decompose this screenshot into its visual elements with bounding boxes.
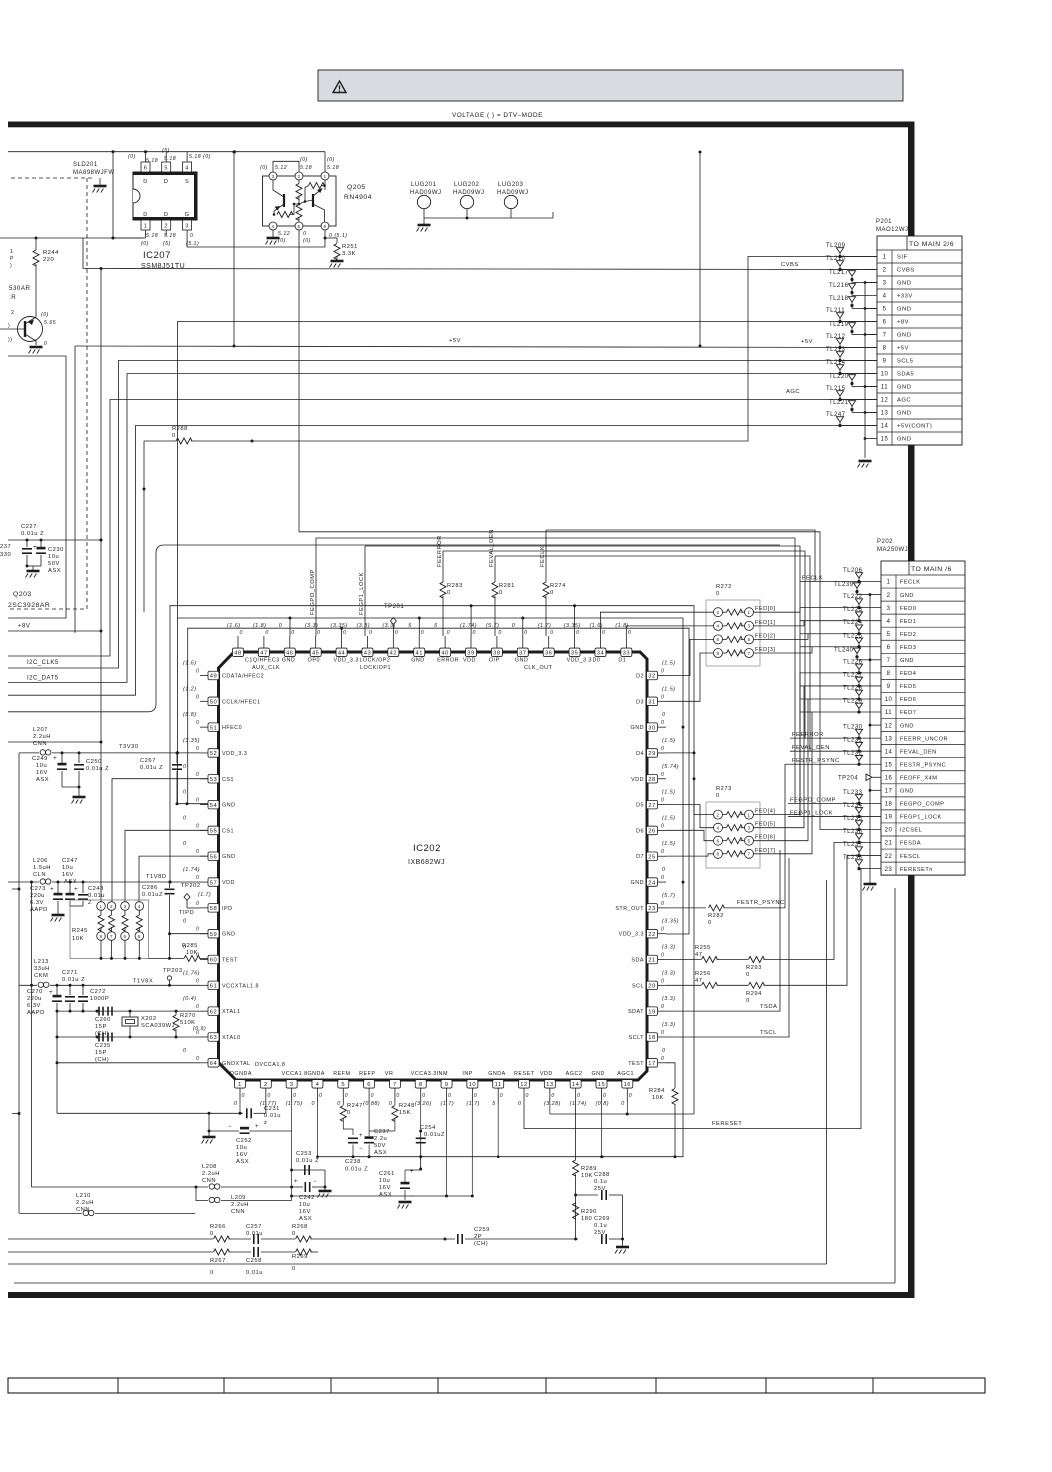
svg-text:R273: R273 bbox=[716, 786, 732, 792]
svg-text:R244: R244 bbox=[43, 250, 59, 256]
IC202 pin 37 bbox=[522, 636, 524, 648]
svg-text:D3: D3 bbox=[636, 699, 644, 705]
svg-text:TL216: TL216 bbox=[829, 283, 849, 289]
svg-text:(1.5): (1.5) bbox=[662, 790, 676, 796]
test point TL217 bbox=[850, 278, 853, 281]
svg-text:D2: D2 bbox=[636, 674, 644, 680]
svg-text:9: 9 bbox=[883, 359, 887, 365]
svg-text:HFEC0: HFEC0 bbox=[222, 725, 242, 731]
svg-text:FERESET: FERESET bbox=[712, 1121, 742, 1127]
wire L208 feed vertical bbox=[31, 882, 33, 1187]
svg-text:(3.3): (3.3) bbox=[662, 970, 676, 976]
svg-text:TL225: TL225 bbox=[843, 633, 863, 639]
svg-text:FESTR_PSYNC: FESTR_PSYNC bbox=[737, 900, 785, 906]
svg-text:34: 34 bbox=[597, 651, 605, 657]
svg-text:10u: 10u bbox=[236, 1145, 247, 1151]
wire top +5V rail y152 bbox=[8, 151, 325, 153]
svg-text:AUX_CLK: AUX_CLK bbox=[252, 665, 280, 671]
wire R245 pin1 feed bbox=[8, 742, 101, 902]
wire CVBS net bbox=[83, 269, 877, 270]
svg-text:−: − bbox=[410, 1194, 414, 1200]
IC202 pin 33 bbox=[625, 636, 627, 648]
svg-text:VDD_3.3: VDD_3.3 bbox=[334, 658, 359, 664]
svg-text:5.65: 5.65 bbox=[44, 320, 56, 326]
svg-text:31: 31 bbox=[648, 700, 655, 706]
svg-text:GND: GND bbox=[897, 411, 911, 417]
svg-text:0: 0 bbox=[44, 341, 47, 347]
svg-text:0: 0 bbox=[422, 1093, 425, 1099]
svg-text:0: 0 bbox=[183, 919, 187, 925]
svg-text:+5V: +5V bbox=[897, 346, 909, 352]
svg-text:0: 0 bbox=[473, 630, 476, 636]
test point TL210 bbox=[838, 268, 841, 271]
svg-text:0: 0 bbox=[196, 669, 199, 675]
svg-text:+: + bbox=[294, 1179, 298, 1185]
svg-text:REFP: REFP bbox=[359, 1071, 375, 1077]
svg-text:2: 2 bbox=[264, 1082, 268, 1088]
IC202 pin 19 bbox=[658, 1010, 666, 1012]
svg-text:12: 12 bbox=[881, 398, 889, 404]
resistor R290 180 bbox=[573, 1203, 579, 1219]
svg-text:X202: X202 bbox=[141, 1016, 157, 1022]
svg-text:0.01u: 0.01u bbox=[264, 1113, 281, 1119]
svg-text:10: 10 bbox=[881, 372, 889, 378]
svg-text:0: 0 bbox=[210, 1270, 214, 1276]
svg-text:5.18: 5.18 bbox=[146, 233, 158, 239]
svg-text:0: 0 bbox=[345, 1093, 348, 1099]
wire DGNDA rail y1113 bbox=[57, 1112, 243, 1114]
svg-text:2.2uH: 2.2uH bbox=[76, 1200, 94, 1206]
svg-text:7: 7 bbox=[110, 934, 113, 939]
svg-text:6.3V: 6.3V bbox=[27, 1003, 41, 1009]
svg-text:R285: R285 bbox=[182, 943, 198, 949]
svg-text:18: 18 bbox=[885, 802, 893, 808]
svg-text:GND: GND bbox=[282, 658, 295, 664]
svg-text:0: 0 bbox=[240, 630, 243, 636]
svg-text:25V: 25V bbox=[594, 1186, 606, 1192]
svg-text:FED[2]: FED[2] bbox=[755, 633, 775, 639]
svg-text:TEST: TEST bbox=[628, 1061, 644, 1067]
svg-text:16V: 16V bbox=[36, 770, 48, 776]
IC202 pin 59 bbox=[200, 933, 208, 935]
IC202 pin 48 bbox=[237, 636, 239, 648]
svg-text:0.1u: 0.1u bbox=[594, 1179, 607, 1185]
svg-text:−: − bbox=[228, 1124, 232, 1130]
wire pin9 INM drop bbox=[446, 1102, 448, 1196]
svg-text:14: 14 bbox=[572, 1082, 580, 1088]
resistor R247 0 bbox=[342, 1102, 344, 1105]
resistor R251 3.3K bbox=[325, 238, 337, 243]
svg-text:LOCK/OP1: LOCK/OP1 bbox=[360, 665, 391, 671]
svg-text:0: 0 bbox=[196, 772, 199, 778]
svg-text:7: 7 bbox=[883, 333, 887, 339]
IC202 pin 43 bbox=[366, 636, 368, 648]
svg-text:5.18: 5.18 bbox=[300, 165, 312, 171]
resistor network R245 10K bbox=[70, 900, 149, 958]
svg-text:L213: L213 bbox=[34, 959, 49, 965]
svg-text:TL215: TL215 bbox=[826, 386, 846, 392]
IC202 pin 14 bbox=[575, 1088, 577, 1102]
svg-text:(3.35): (3.35) bbox=[183, 738, 200, 744]
svg-text:0: 0 bbox=[210, 1231, 214, 1237]
svg-text:FED5: FED5 bbox=[900, 684, 916, 690]
svg-text:+5V(CONT): +5V(CONT) bbox=[897, 424, 932, 430]
svg-text:R294: R294 bbox=[746, 991, 762, 997]
svg-text:4: 4 bbox=[887, 619, 891, 625]
svg-text:0: 0 bbox=[196, 875, 199, 881]
svg-text:FESDA: FESDA bbox=[900, 841, 921, 847]
svg-text:+5V: +5V bbox=[449, 338, 461, 344]
svg-text:TL222: TL222 bbox=[843, 594, 863, 600]
IC202 pin 55 bbox=[200, 829, 208, 831]
svg-text:4: 4 bbox=[271, 224, 274, 229]
svg-text:38: 38 bbox=[493, 651, 500, 657]
wire GND pin56 to R245 bbox=[139, 856, 208, 901]
svg-text:0: 0 bbox=[371, 1093, 374, 1099]
svg-text:GND: GND bbox=[897, 281, 911, 287]
svg-text:AGC2: AGC2 bbox=[566, 1071, 583, 1077]
svg-text:FEERR_UNCOR: FEERR_UNCOR bbox=[900, 736, 948, 742]
test point TL218 bbox=[850, 304, 853, 307]
svg-text:AGC: AGC bbox=[786, 389, 800, 395]
svg-text:0: 0 bbox=[661, 875, 664, 881]
svg-text:SIF: SIF bbox=[897, 255, 908, 261]
svg-text:LUG201: LUG201 bbox=[411, 182, 437, 188]
wire to P202 pin 15 bbox=[790, 763, 859, 765]
svg-text:INM: INM bbox=[437, 1071, 448, 1077]
IC202 pin 46 bbox=[289, 636, 291, 648]
ground C261 bbox=[399, 1201, 412, 1204]
svg-text:6: 6 bbox=[123, 934, 126, 939]
IC202 pin 61 bbox=[200, 984, 208, 986]
wire x101 upper bbox=[100, 269, 102, 743]
svg-text:C261: C261 bbox=[379, 1171, 395, 1177]
svg-text:SLD201: SLD201 bbox=[73, 162, 98, 168]
wire D1 to R272 bbox=[626, 626, 713, 636]
svg-text:3: 3 bbox=[883, 281, 887, 287]
Q205 pin 4 bbox=[269, 222, 277, 230]
svg-text:CLN: CLN bbox=[33, 872, 46, 878]
svg-text:TL227: TL227 bbox=[843, 672, 863, 678]
svg-text:5.18: 5.18 bbox=[327, 165, 339, 171]
svg-text:220u: 220u bbox=[27, 996, 42, 1002]
svg-text:GND: GND bbox=[897, 385, 911, 391]
svg-text:TO MAIN 2/6: TO MAIN 2/6 bbox=[909, 241, 954, 248]
svg-text:9: 9 bbox=[445, 1082, 449, 1088]
wire vertical x700 bbox=[699, 152, 701, 346]
svg-text:0: 0 bbox=[628, 630, 631, 636]
svg-text:GND: GND bbox=[411, 658, 424, 664]
svg-text:42: 42 bbox=[390, 651, 397, 657]
ground Q205 pin4 bbox=[272, 230, 274, 237]
svg-text:35: 35 bbox=[571, 651, 578, 657]
svg-text:(5.1): (5.1) bbox=[186, 241, 199, 247]
svg-text:10K: 10K bbox=[72, 936, 84, 942]
svg-text:6: 6 bbox=[716, 637, 719, 642]
wire cluster2 bottoms bbox=[70, 905, 83, 907]
svg-text:0: 0 bbox=[661, 669, 664, 675]
svg-text:5: 5 bbox=[297, 224, 300, 229]
svg-text:0: 0 bbox=[196, 798, 199, 804]
svg-text:0: 0 bbox=[661, 953, 664, 959]
svg-text:VDD_3.3: VDD_3.3 bbox=[567, 658, 592, 664]
wire pin10 INP drop bbox=[471, 1102, 473, 1196]
svg-text:ASX: ASX bbox=[379, 1192, 392, 1198]
svg-text:FERESETn: FERESETn bbox=[900, 867, 933, 873]
svg-text:(1.76): (1.76) bbox=[183, 970, 200, 976]
wire y1196 rail bbox=[292, 1195, 473, 1197]
svg-text:VR: VR bbox=[385, 1071, 394, 1077]
svg-text:(CH): (CH) bbox=[474, 1241, 488, 1247]
wire x113 drop bbox=[112, 152, 114, 238]
svg-text:1: 1 bbox=[144, 224, 148, 230]
capacitor C269 0.1u 25V bbox=[601, 1234, 603, 1244]
svg-text:0: 0 bbox=[524, 630, 527, 636]
svg-text:0: 0 bbox=[183, 764, 187, 770]
svg-text:17: 17 bbox=[648, 1061, 655, 1067]
wire SDAT TSDA bbox=[666, 850, 780, 1011]
wire bottom pin stub drops bbox=[239, 1102, 241, 1113]
svg-text:O/P: O/P bbox=[489, 658, 500, 664]
svg-text:C254: C254 bbox=[420, 1125, 436, 1131]
svg-text:0: 0 bbox=[183, 1048, 187, 1054]
svg-text:10u: 10u bbox=[379, 1178, 390, 1184]
svg-text:(0): (0) bbox=[300, 157, 308, 163]
svg-text:7: 7 bbox=[747, 852, 750, 857]
svg-text:AGC1: AGC1 bbox=[617, 1071, 634, 1077]
svg-text:GND: GND bbox=[900, 658, 914, 664]
svg-text:0: 0 bbox=[196, 901, 199, 907]
svg-text:19: 19 bbox=[885, 815, 893, 821]
svg-text:14: 14 bbox=[881, 424, 889, 430]
svg-text:C286: C286 bbox=[142, 885, 158, 891]
svg-text:REFM: REFM bbox=[333, 1071, 350, 1077]
test point TL230 bbox=[857, 737, 860, 740]
svg-text:I2C_CLK5: I2C_CLK5 bbox=[27, 660, 59, 666]
svg-text:57: 57 bbox=[210, 880, 217, 886]
svg-text:D: D bbox=[143, 212, 148, 218]
svg-text:TP201: TP201 bbox=[384, 604, 404, 610]
Q205 pin 1 bbox=[321, 172, 329, 180]
svg-text:ASX: ASX bbox=[64, 879, 77, 885]
svg-text:30: 30 bbox=[648, 725, 655, 731]
svg-text:(3.35): (3.35) bbox=[662, 919, 679, 925]
svg-text:0: 0 bbox=[474, 1093, 477, 1099]
svg-text:CKM: CKM bbox=[34, 973, 48, 979]
bottom title block strip bbox=[8, 1378, 985, 1393]
IC202 pin 63 bbox=[200, 1036, 208, 1038]
svg-text:C253: C253 bbox=[296, 1151, 312, 1157]
wire pin44 stub to VDD33 rail bbox=[341, 628, 343, 636]
svg-text:0: 0 bbox=[196, 720, 199, 726]
svg-text:0: 0 bbox=[498, 630, 501, 636]
svg-text:P201: P201 bbox=[876, 219, 892, 225]
svg-text:0: 0 bbox=[311, 1101, 315, 1107]
svg-text:5: 5 bbox=[747, 839, 750, 844]
svg-text:SCA039WJ: SCA039WJ bbox=[141, 1023, 175, 1029]
IC202 pin 47 bbox=[263, 636, 265, 648]
svg-text:FED4: FED4 bbox=[900, 671, 916, 677]
svg-text:4: 4 bbox=[716, 624, 719, 629]
IC202 pin 56 bbox=[200, 855, 208, 857]
test point TL216 bbox=[850, 291, 853, 294]
svg-text:TL230: TL230 bbox=[843, 725, 863, 731]
wire pin3 VCCA drop bbox=[291, 1102, 293, 1201]
svg-text:TL219: TL219 bbox=[829, 322, 849, 328]
svg-text:P: P bbox=[10, 256, 14, 262]
svg-text:7: 7 bbox=[747, 651, 750, 656]
resistor network R273 0 bbox=[706, 802, 760, 868]
svg-text:TL233: TL233 bbox=[843, 790, 863, 796]
svg-text:3: 3 bbox=[290, 1082, 294, 1088]
svg-text:63: 63 bbox=[210, 1035, 217, 1041]
svg-text:0.01u Z: 0.01u Z bbox=[21, 531, 44, 537]
svg-text:0: 0 bbox=[500, 1093, 503, 1099]
svg-text:5: 5 bbox=[883, 307, 887, 313]
svg-text:TL232: TL232 bbox=[843, 751, 863, 757]
svg-text:IPD: IPD bbox=[222, 906, 233, 912]
capacitor C237 2.2u 50V ASX bbox=[368, 1102, 370, 1136]
ground R251 bbox=[331, 260, 344, 263]
wire D2 to R272 bbox=[666, 639, 714, 675]
wire SIF net with R288 bbox=[144, 440, 176, 442]
resistor R248 15K bbox=[394, 1102, 396, 1105]
svg-text:(1.7): (1.7) bbox=[198, 892, 211, 898]
svg-text:16V: 16V bbox=[62, 872, 74, 878]
svg-text:0.01u: 0.01u bbox=[246, 1231, 263, 1237]
capacitor C253 0.01u Z bbox=[292, 1169, 325, 1171]
svg-text:0: 0 bbox=[661, 772, 664, 778]
svg-text:2: 2 bbox=[716, 610, 719, 615]
svg-text::R: :R bbox=[9, 294, 16, 301]
svg-text:IC207: IC207 bbox=[143, 250, 171, 261]
svg-text:TL213: TL213 bbox=[826, 347, 846, 353]
svg-text:17: 17 bbox=[885, 789, 893, 795]
wire top rail feed bbox=[233, 152, 235, 346]
svg-text:(1.74): (1.74) bbox=[183, 867, 200, 873]
svg-text:7: 7 bbox=[887, 658, 891, 664]
ground C227 bbox=[32, 566, 34, 570]
svg-text:GND: GND bbox=[631, 880, 644, 886]
capacitor C252 10u 16V ASX bbox=[240, 1127, 249, 1130]
svg-text:R267: R267 bbox=[210, 1258, 226, 1264]
svg-text:GND: GND bbox=[222, 854, 235, 860]
wire CVBS corner bbox=[82, 238, 84, 269]
wire C261 feed bbox=[405, 1131, 421, 1170]
svg-text:0: 0 bbox=[661, 978, 664, 984]
svg-text:ASX: ASX bbox=[48, 568, 61, 574]
svg-text:T3V30: T3V30 bbox=[119, 744, 139, 750]
svg-text:FESCL: FESCL bbox=[900, 854, 921, 860]
IC202 pin 6 bbox=[368, 1088, 370, 1102]
IC202 pin 54 bbox=[200, 804, 208, 806]
test point TL214 bbox=[838, 372, 841, 375]
svg-text:0: 0 bbox=[661, 1004, 664, 1010]
svg-text:6: 6 bbox=[883, 320, 887, 326]
svg-text:(3.26): (3.26) bbox=[415, 1101, 432, 1107]
svg-text:13: 13 bbox=[885, 736, 893, 742]
svg-text:16: 16 bbox=[885, 775, 893, 781]
Q205 pin 5 bbox=[295, 222, 303, 230]
svg-text:2P: 2P bbox=[474, 1234, 482, 1240]
IC202 pin 60 bbox=[200, 959, 208, 961]
wire +5V rail bbox=[75, 346, 877, 348]
svg-text:R284: R284 bbox=[649, 1088, 665, 1094]
IC202 pin 23 bbox=[658, 907, 666, 909]
svg-text:0.01u Z: 0.01u Z bbox=[86, 766, 109, 772]
svg-text:SDA5: SDA5 bbox=[897, 372, 914, 378]
svg-text:1: 1 bbox=[323, 174, 326, 179]
test point TL220 bbox=[850, 382, 853, 385]
IC202 pin 51 bbox=[200, 726, 208, 728]
svg-text:C267: C267 bbox=[140, 758, 156, 764]
capacitor C254 0.01uZ bbox=[420, 1102, 422, 1137]
svg-text:49: 49 bbox=[210, 674, 217, 680]
svg-text:61: 61 bbox=[210, 984, 217, 990]
wire SCL5 to I2C_CLK5 bbox=[8, 361, 877, 669]
svg-text:CVBS: CVBS bbox=[897, 268, 915, 274]
svg-text:0: 0 bbox=[746, 998, 750, 1004]
svg-text:TSDA: TSDA bbox=[760, 1004, 777, 1010]
IC202 pin 18 bbox=[658, 1036, 666, 1038]
svg-text:(CH): (CH) bbox=[95, 1057, 109, 1063]
svg-text:(0): (0) bbox=[128, 154, 136, 160]
svg-text:0.01u: 0.01u bbox=[88, 893, 105, 899]
svg-text:FEGPO_COMP: FEGPO_COMP bbox=[900, 802, 944, 808]
svg-text:): ) bbox=[8, 323, 10, 329]
svg-text:GND: GND bbox=[591, 1071, 604, 1077]
svg-text:180: 180 bbox=[581, 1216, 592, 1222]
svg-text:16: 16 bbox=[624, 1082, 631, 1088]
svg-text:2: 2 bbox=[716, 812, 719, 817]
thick page border right bbox=[908, 122, 915, 1298]
wire y1252 rail bbox=[8, 1251, 213, 1253]
IC202 pin 21 bbox=[658, 959, 666, 961]
IC202 pin 8 bbox=[420, 1088, 422, 1102]
svg-text:C272: C272 bbox=[90, 989, 106, 995]
svg-text:25: 25 bbox=[648, 854, 655, 860]
svg-text:P202: P202 bbox=[877, 539, 893, 545]
wire C249 C250 bottoms bbox=[62, 786, 79, 788]
wire D3 to R272 bbox=[666, 653, 714, 701]
svg-text:0: 0 bbox=[265, 630, 268, 636]
svg-text:GND: GND bbox=[222, 803, 235, 809]
svg-text:FED[6]: FED[6] bbox=[755, 835, 775, 841]
wire IC207 pin3 to Q205 pin6 bbox=[187, 230, 325, 247]
svg-text:18: 18 bbox=[648, 1035, 655, 1041]
svg-text:GND: GND bbox=[897, 437, 911, 443]
svg-text:TL238: TL238 bbox=[843, 855, 863, 861]
svg-text:R282: R282 bbox=[708, 913, 724, 919]
svg-text:0: 0 bbox=[629, 1093, 632, 1099]
svg-text:FED1: FED1 bbox=[900, 619, 916, 625]
test point TL227 bbox=[857, 684, 860, 687]
svg-text:0: 0 bbox=[603, 1093, 606, 1099]
ground P201 bus bbox=[859, 460, 872, 463]
svg-text:39: 39 bbox=[467, 651, 474, 657]
svg-text:CCLK/HFEC1: CCLK/HFEC1 bbox=[222, 699, 261, 705]
ground SLD201 bbox=[94, 185, 107, 188]
resistor R284 10K bbox=[672, 1089, 678, 1105]
svg-text:(3.3): (3.3) bbox=[662, 996, 676, 1002]
svg-text:47: 47 bbox=[695, 952, 702, 958]
svg-text:0: 0 bbox=[183, 815, 187, 821]
svg-text:(0): (0) bbox=[327, 157, 335, 163]
resistor network R272 0 bbox=[706, 600, 760, 666]
svg-text:(0): (0) bbox=[141, 241, 149, 247]
test point TL237 bbox=[857, 854, 860, 857]
svg-text:(3.28): (3.28) bbox=[544, 1101, 561, 1107]
